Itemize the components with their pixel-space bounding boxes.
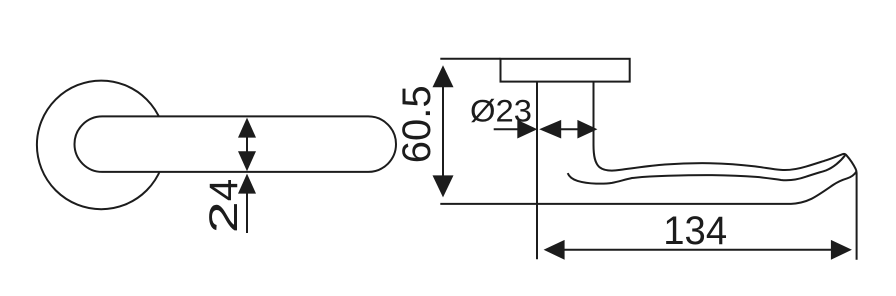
- neck left line / 134 left extension: [536, 81, 538, 259]
- 134 arrow left: [544, 240, 565, 260]
- svg-text:Ø23: Ø23: [470, 93, 532, 129]
- Ø23 arrow left inside: [539, 120, 561, 139]
- mounting plate (side view): [501, 59, 630, 82]
- 60.5 arrow up: [433, 65, 454, 87]
- Ø23 leader line: [494, 128, 518, 130]
- 60.5 arrow down: [433, 175, 454, 197]
- svg-text:2: 2: [202, 201, 246, 233]
- 134 arrow right: [831, 240, 852, 260]
- Ø23 inner line: [560, 128, 578, 130]
- svg-text:4: 4: [202, 179, 246, 201]
- dim 24 arrow down at bottom edge: [238, 151, 256, 171]
- 60.5 dimension line: [442, 86, 444, 178]
- lever handle (front view stadium): [75, 116, 397, 171]
- neck right line + lever top edge: [594, 81, 857, 260]
- top extension line 60.5: [440, 58, 500, 60]
- dim 24 leader below: [246, 193, 248, 233]
- lever underside second line: [568, 155, 845, 183]
- Ø23 arrow right at right neck line: [577, 120, 597, 139]
- rosette circle (front view): [37, 81, 166, 210]
- svg-text:134: 134: [663, 209, 727, 253]
- 134 dimension line: [564, 249, 831, 251]
- svg-text:60.5: 60.5: [395, 85, 439, 163]
- Ø23 arrow right at left neck line: [517, 120, 537, 139]
- dim 24 arrow up at top edge: [238, 118, 256, 138]
- bottom extension line / tip under-curl: [440, 172, 856, 204]
- dim 24 arrow up below bottom edge: [238, 174, 256, 194]
- dim 24 inner line: [246, 137, 248, 153]
